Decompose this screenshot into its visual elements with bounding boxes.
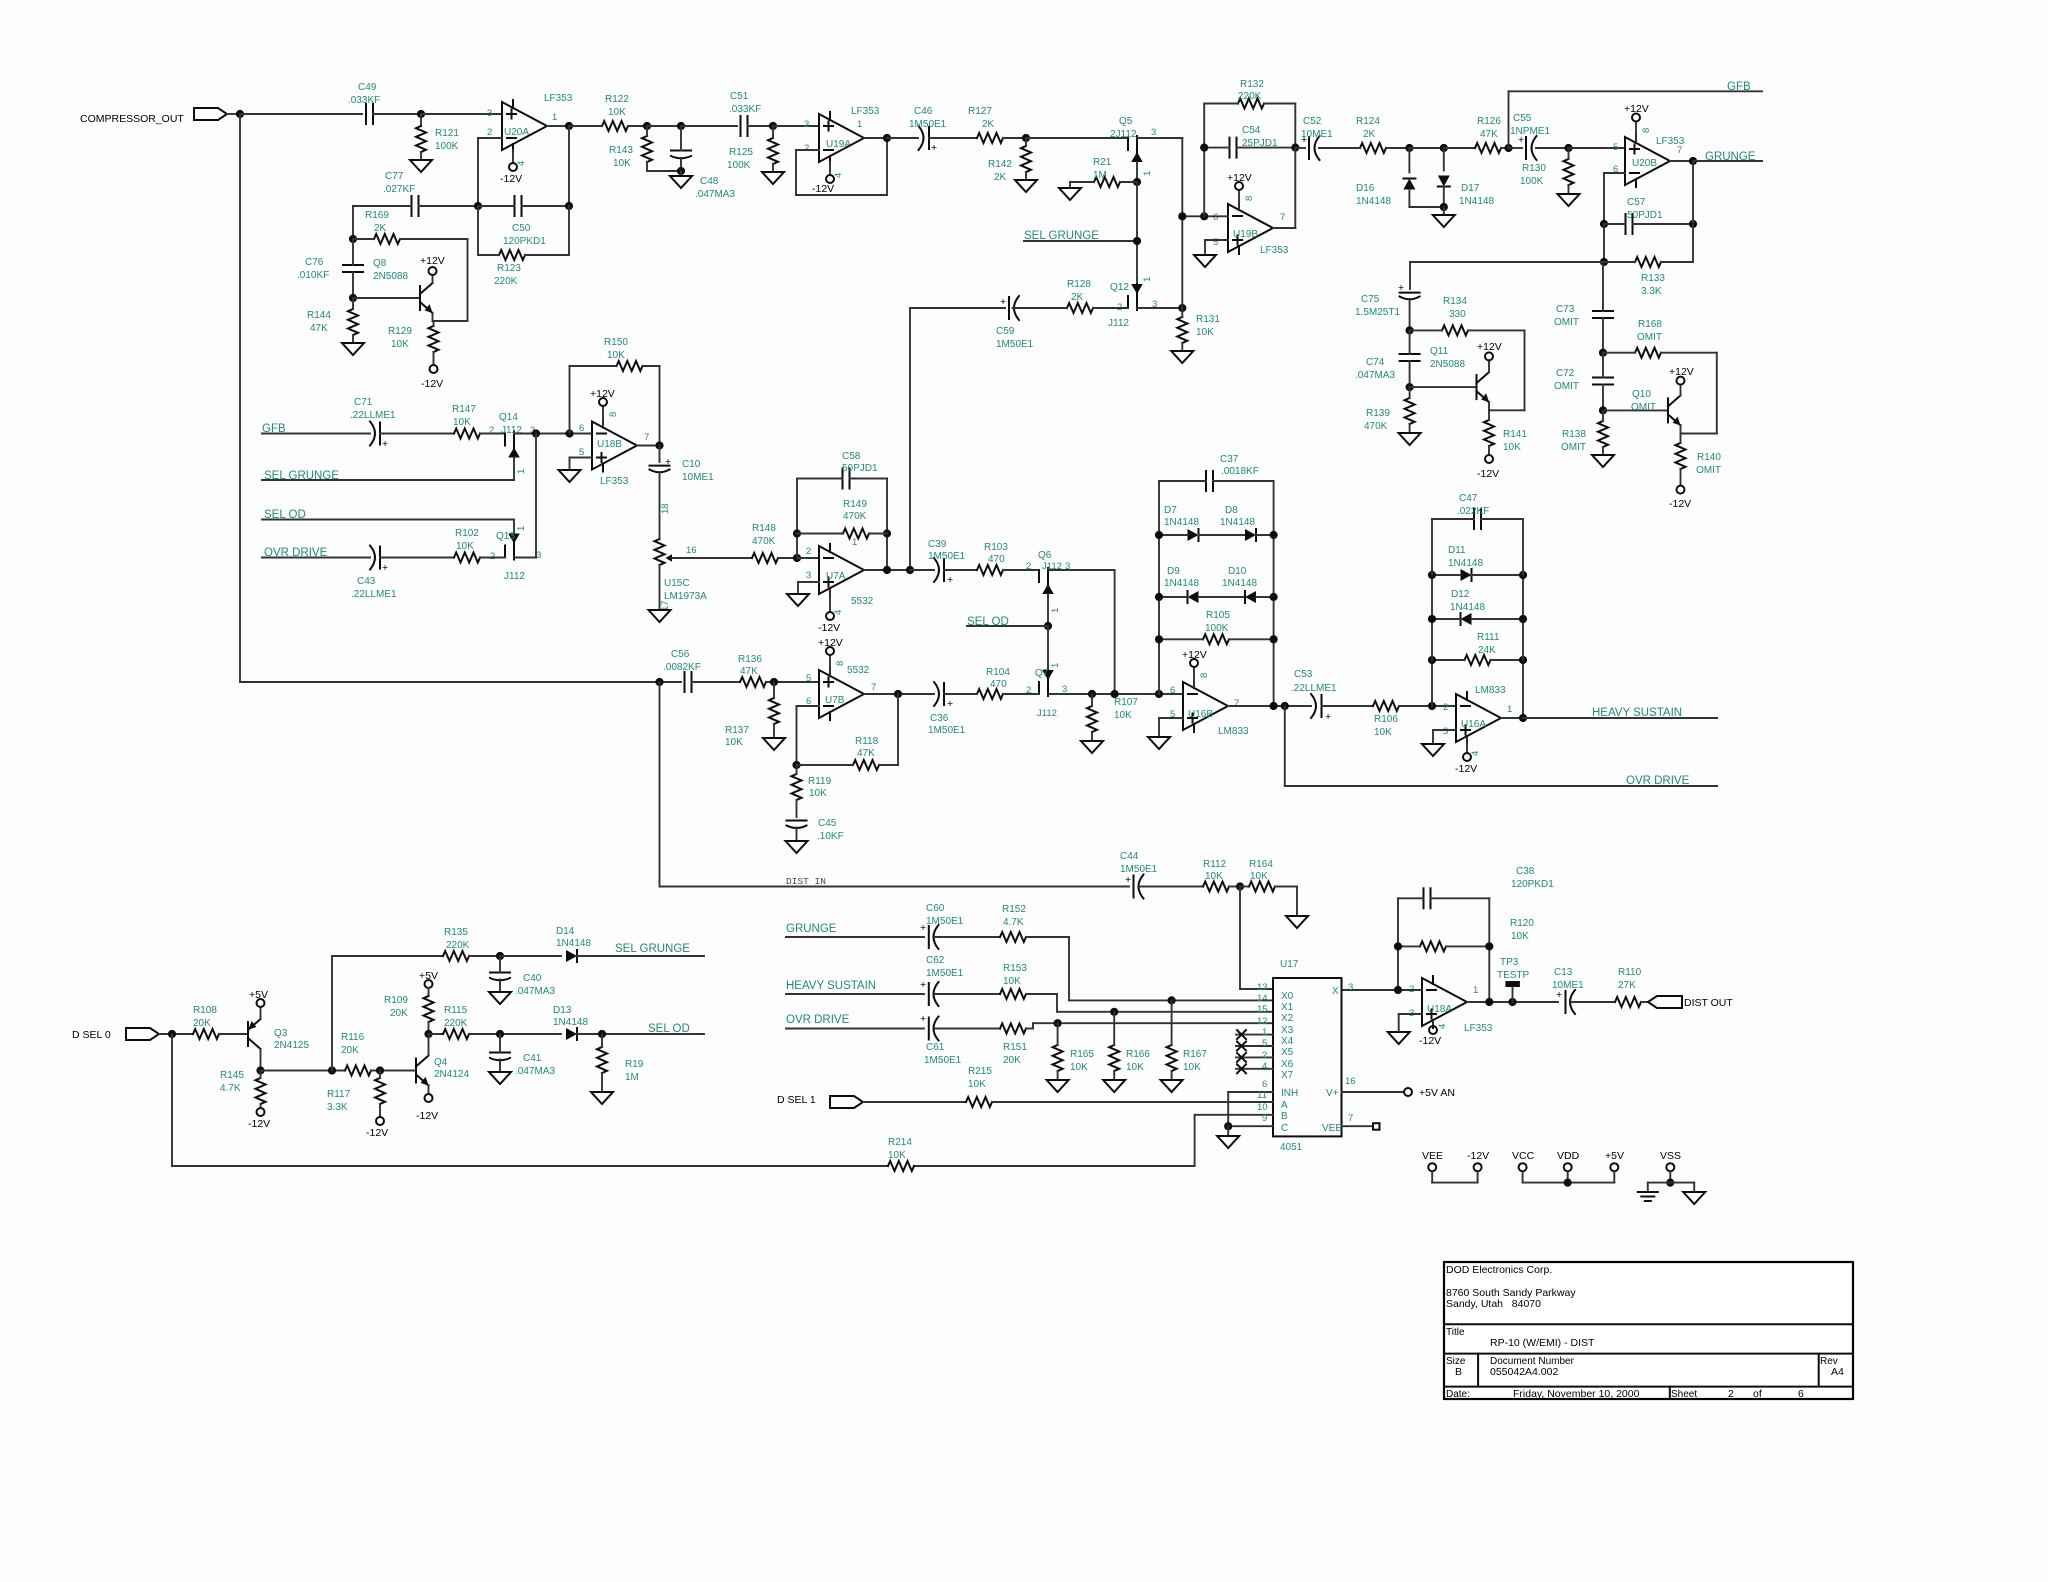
resistor R152: [1000, 904, 1069, 942]
wire: [1295, 147, 1305, 149]
capacitor C37: [1159, 454, 1274, 706]
svg-text:1: 1: [1262, 1027, 1267, 1038]
capacitor C71 polarized: [350, 397, 396, 450]
node: [1599, 406, 1607, 414]
resistor R168 OMIT: [1603, 319, 1717, 358]
svg-text:1M50E1: 1M50E1: [928, 551, 966, 562]
resistor R118: [797, 694, 899, 770]
svg-text:3: 3: [1151, 127, 1156, 138]
svg-text:C38: C38: [1516, 866, 1535, 877]
node: [1155, 593, 1163, 601]
wire Q13 drain riser: [513, 520, 515, 534]
node: [1291, 144, 1299, 152]
svg-text:4.7K: 4.7K: [1003, 917, 1024, 928]
wire: [1571, 1001, 1615, 1003]
svg-text:15: 15: [1257, 1004, 1268, 1015]
svg-text:470: 470: [988, 554, 1005, 565]
capacitor C36 polarized: [928, 682, 966, 736]
svg-text:C60: C60: [926, 903, 945, 914]
resistor R106: [1373, 701, 1456, 738]
power -12V Q4: [416, 1094, 438, 1122]
svg-text:LF353: LF353: [1464, 1023, 1493, 1034]
IC U17 4051 multiplexer: [1273, 959, 1342, 1153]
svg-text:1M50E1: 1M50E1: [909, 119, 947, 130]
resistor R153: [1000, 963, 1057, 999]
wire SEL GRUNGE row: [262, 479, 514, 481]
svg-text:R127: R127: [968, 106, 992, 117]
U17 pin X2: [1257, 1004, 1294, 1024]
ground: [1558, 194, 1580, 206]
transistor Q8: [373, 258, 433, 313]
wire: [681, 125, 737, 127]
wire: [159, 1033, 193, 1035]
svg-text:C59: C59: [996, 326, 1015, 337]
svg-text:D12: D12: [1451, 589, 1470, 600]
node: [1600, 258, 1608, 266]
svg-text:10K: 10K: [1205, 871, 1223, 882]
svg-text:-12V: -12V: [812, 183, 834, 195]
diode D16 1N4148: [1356, 148, 1415, 207]
svg-text:2K: 2K: [1071, 292, 1084, 303]
wire: [886, 138, 888, 195]
power +12V U20B pin8: [1624, 103, 1652, 142]
svg-text:1: 1: [1507, 704, 1512, 715]
resistor R144: [307, 298, 358, 343]
wire U19B pin6: [1182, 215, 1228, 217]
wire: [1522, 575, 1524, 660]
connector DIST OUT: [1648, 996, 1682, 1008]
svg-text:1N4148: 1N4148: [1164, 517, 1199, 528]
node: [1428, 615, 1436, 623]
node: [894, 690, 902, 698]
wire: [261, 1070, 346, 1072]
wire DIST IN riser: [659, 682, 661, 887]
svg-text:+12V: +12V: [818, 637, 843, 649]
svg-text:1: 1: [857, 119, 862, 130]
svg-text:R147: R147: [452, 404, 476, 415]
transistor Q6 JFET: [1026, 550, 1070, 613]
svg-text:D13: D13: [553, 1005, 572, 1016]
wire Q13 source: [514, 557, 536, 559]
svg-text:6: 6: [1798, 1388, 1804, 1400]
svg-text:C: C: [1281, 1123, 1288, 1134]
wire: [1294, 148, 1296, 228]
op-amp U7A: [806, 537, 874, 607]
svg-text:C41: C41: [523, 1053, 542, 1064]
svg-text:C47: C47: [1459, 493, 1478, 504]
resistor R164: [1240, 859, 1297, 892]
node: [1168, 996, 1176, 1004]
wire U7B input row: [240, 681, 681, 683]
power -12V R141: [1477, 455, 1499, 480]
power -12V R140: [1669, 486, 1691, 510]
testpoint TP3 TESTP: [1497, 957, 1530, 1002]
svg-text:16: 16: [1345, 1076, 1356, 1087]
capacitor C74: [1355, 330, 1420, 387]
capacitor C46 polarized: [909, 106, 947, 154]
svg-text:R128: R128: [1067, 279, 1091, 290]
power -12V R145: [248, 1108, 270, 1130]
svg-text:.10KF: .10KF: [817, 831, 844, 842]
svg-text:DOD Electronics Corp.: DOD Electronics Corp.: [1446, 1264, 1552, 1276]
node: [496, 1030, 504, 1038]
ground: [1103, 1080, 1125, 1092]
node: [1133, 178, 1141, 186]
svg-text:R136: R136: [738, 654, 762, 665]
svg-text:4.7K: 4.7K: [220, 1083, 241, 1094]
resistor R107: [1087, 694, 1138, 741]
svg-text:470K: 470K: [1364, 421, 1388, 432]
node: [883, 529, 891, 537]
svg-text:330: 330: [1449, 309, 1466, 320]
svg-text:10K: 10K: [391, 339, 409, 350]
wire: [478, 205, 515, 207]
U17 pin X4: [1236, 1027, 1294, 1047]
node: [769, 122, 777, 130]
wire U20A pin2 stub: [478, 137, 502, 139]
U17 pin X out: [1332, 982, 1353, 997]
svg-text:C49: C49: [358, 82, 377, 93]
resistor R103: [977, 542, 1039, 575]
op-amp U7B: [806, 665, 876, 720]
svg-text:.047MA3: .047MA3: [515, 1066, 555, 1077]
svg-text:R149: R149: [843, 499, 867, 510]
svg-text:C52: C52: [1303, 116, 1322, 127]
svg-text:2: 2: [1026, 561, 1031, 572]
svg-text:R110: R110: [1618, 967, 1642, 978]
svg-text:R143: R143: [609, 145, 633, 156]
svg-text:R119: R119: [808, 776, 832, 787]
svg-text:C72: C72: [1556, 368, 1575, 379]
svg-text:100K: 100K: [1520, 176, 1544, 187]
svg-text:1M50E1: 1M50E1: [926, 916, 964, 927]
wire U7B pin6 stub: [797, 705, 820, 707]
svg-text:X7: X7: [1281, 1070, 1294, 1081]
node: [1689, 220, 1697, 228]
wire OVR DRIVE return: [1285, 785, 1717, 787]
svg-text:+: +: [1325, 711, 1331, 723]
svg-text:9: 9: [1262, 1113, 1267, 1124]
svg-text:R115: R115: [444, 1005, 468, 1016]
svg-text:C36: C36: [930, 713, 949, 724]
power -12V U16A pin4: [1455, 738, 1481, 775]
svg-text:+5V AN: +5V AN: [1419, 1087, 1455, 1099]
svg-text:Q12: Q12: [1110, 282, 1129, 293]
node: [1022, 134, 1030, 142]
svg-text:5: 5: [1262, 1038, 1267, 1049]
svg-text:27K: 27K: [1618, 980, 1636, 991]
capacitor C73 OMIT: [1554, 262, 1613, 353]
svg-text:J112: J112: [1037, 708, 1057, 719]
svg-text:4: 4: [833, 610, 844, 615]
wire Q10 emitter: [1680, 425, 1682, 434]
node: [1405, 144, 1413, 152]
svg-text:U7A: U7A: [826, 571, 846, 582]
svg-text:5: 5: [806, 673, 811, 684]
wire GFB row: [262, 433, 370, 435]
svg-text:R126: R126: [1477, 116, 1501, 127]
wire bottom rail: [172, 1165, 888, 1167]
svg-text:6: 6: [579, 423, 584, 434]
wire: [863, 1101, 966, 1103]
svg-text:+: +: [1000, 296, 1006, 308]
svg-text:12: 12: [1257, 1016, 1268, 1027]
op-amp U18A: [1409, 976, 1493, 1034]
node: [1155, 690, 1163, 698]
U17 pin V+: [1326, 1076, 1404, 1099]
resistor R125: [727, 126, 778, 172]
svg-text:10ME1: 10ME1: [1552, 980, 1584, 991]
svg-text:470: 470: [990, 679, 1007, 690]
transistor Q3 2N4125 PNP: [248, 1019, 309, 1051]
svg-text:R120: R120: [1510, 918, 1534, 929]
ground: [1171, 351, 1193, 363]
capacitor C54: [1204, 125, 1295, 158]
svg-text:.027KF: .027KF: [383, 184, 415, 195]
svg-text:47K: 47K: [857, 748, 875, 759]
wire U16A pin3 gnd: [1422, 730, 1456, 756]
resistor R214: [888, 1137, 914, 1171]
svg-text:10K: 10K: [607, 350, 625, 361]
resistor R140 OMIT: [1676, 434, 1722, 486]
wire Q6 source: [1047, 594, 1049, 626]
ground: [1217, 1126, 1239, 1148]
svg-text:X6: X6: [1281, 1059, 1294, 1070]
resistor R132: [1204, 79, 1295, 216]
wire U20A out: [547, 125, 569, 127]
svg-text:R104: R104: [986, 667, 1010, 678]
wire: [1047, 626, 1049, 670]
capacitor C48: [671, 126, 735, 200]
wire: [1140, 886, 1204, 888]
svg-text:7: 7: [871, 682, 876, 693]
node: [1519, 714, 1527, 722]
svg-text:C61: C61: [926, 1042, 945, 1053]
transistor Q4 2N4124: [416, 1056, 469, 1086]
svg-text:D SEL 0: D SEL 0: [72, 1029, 111, 1041]
resistor R19: [597, 1034, 644, 1092]
svg-text:A4: A4: [1831, 1366, 1844, 1378]
svg-text:1N4148: 1N4148: [1222, 578, 1257, 589]
resistor R143: [609, 126, 681, 171]
svg-text:R124: R124: [1356, 116, 1380, 127]
svg-text:5532: 5532: [851, 596, 874, 607]
capacitor C49: [348, 82, 380, 124]
svg-text:U7B: U7B: [825, 695, 845, 706]
node: [376, 1066, 384, 1074]
wire: [1431, 575, 1433, 660]
node: [1270, 531, 1278, 539]
diode D13 1N4148: [553, 1005, 704, 1040]
svg-text:4051: 4051: [1280, 1142, 1303, 1153]
wire: [227, 113, 240, 115]
diode D10 1N4148: [1222, 566, 1274, 603]
capacitor C75 polarized vertical: [1355, 262, 1420, 327]
svg-text:C56: C56: [671, 649, 690, 660]
svg-text:3.3K: 3.3K: [1641, 286, 1662, 297]
capacitor C39 polarized: [928, 539, 966, 586]
resistor R129: [388, 321, 439, 365]
node: [532, 429, 540, 437]
svg-text:Q10: Q10: [1632, 389, 1651, 400]
wire B drop to R214: [1194, 1115, 1196, 1166]
capacitor C62 polarized: [920, 955, 964, 1006]
resistor R169: [353, 210, 468, 244]
svg-text:220K: 220K: [446, 940, 470, 951]
svg-text:-12V: -12V: [1419, 1035, 1441, 1047]
svg-text:10ME1: 10ME1: [1301, 129, 1333, 140]
svg-text:470K: 470K: [752, 536, 776, 547]
wire long vertical to U7B stage: [239, 114, 241, 682]
ground: [489, 1072, 511, 1084]
wire GRUNGE row: [786, 936, 924, 938]
svg-text:R151: R151: [1003, 1042, 1027, 1053]
wire Q14 source: [513, 458, 515, 481]
svg-text:LM1973A: LM1973A: [664, 591, 707, 602]
wire: [935, 1028, 1001, 1030]
svg-text:Q5: Q5: [1119, 116, 1133, 127]
wire: [887, 137, 918, 139]
svg-text:R117: R117: [327, 1089, 351, 1100]
svg-text:+12V: +12V: [1182, 649, 1207, 661]
power +12V U7B pin8: [818, 637, 846, 675]
wire: [692, 681, 741, 683]
svg-text:C13: C13: [1554, 967, 1573, 978]
ground: [786, 841, 808, 853]
svg-text:C37: C37: [1220, 454, 1239, 465]
ground: [1433, 207, 1455, 227]
svg-text:LM833: LM833: [1475, 685, 1506, 696]
svg-text:D10: D10: [1228, 566, 1247, 577]
node: [793, 554, 801, 562]
svg-text:+12V: +12V: [1624, 103, 1649, 115]
wire: [935, 993, 1001, 995]
resistor R124: [1319, 116, 1409, 153]
node: [1200, 144, 1208, 152]
resistor R130: [1520, 148, 1574, 194]
svg-text:220K: 220K: [1238, 91, 1262, 102]
node: [424, 1030, 432, 1038]
svg-text:D SEL 1: D SEL 1: [777, 1094, 816, 1106]
svg-text:10K: 10K: [1183, 1062, 1201, 1073]
svg-text:B: B: [1455, 1366, 1462, 1378]
ground: [670, 171, 692, 188]
svg-text:5: 5: [1613, 142, 1618, 153]
svg-text:4: 4: [1262, 1061, 1267, 1072]
svg-text:SEL OD: SEL OD: [648, 1023, 690, 1035]
node: [1044, 622, 1052, 630]
ground: [1161, 1080, 1183, 1092]
node: [1508, 998, 1516, 1006]
svg-text:V+: V+: [1326, 1088, 1339, 1099]
svg-text:+: +: [1398, 282, 1404, 294]
wire: [1068, 937, 1070, 1000]
svg-text:R133: R133: [1641, 273, 1665, 284]
capacitor C55 polarized: [1509, 113, 1569, 160]
wire OVR DRIVE row: [786, 1028, 924, 1030]
power +5V AN: [1404, 1087, 1455, 1099]
resistor R165: [1053, 1023, 1095, 1080]
wire: [773, 125, 819, 127]
svg-text:11: 11: [1257, 1090, 1267, 1101]
wire U16A out: [1501, 717, 1523, 719]
node: [1485, 942, 1493, 950]
wire: [522, 205, 570, 207]
resistor R136: [738, 654, 819, 687]
transistor Q14 JFET: [489, 412, 535, 474]
node: [1519, 615, 1527, 623]
svg-text:10K: 10K: [809, 788, 827, 799]
svg-text:+5V: +5V: [419, 970, 438, 982]
svg-text:R215: R215: [968, 1066, 992, 1077]
diode D12 1N4148: [1432, 589, 1523, 625]
wire U18B out: [637, 445, 660, 447]
wire U19B out: [1273, 227, 1295, 229]
svg-text:R122: R122: [605, 94, 629, 105]
node: [1155, 531, 1163, 539]
wire: [353, 205, 412, 207]
wire U16B pin5 gnd: [1148, 718, 1183, 749]
resistor R150: [570, 337, 660, 446]
capacitor C50: [503, 196, 546, 247]
svg-text:10K: 10K: [456, 541, 474, 552]
node: [1111, 690, 1119, 698]
svg-text:C50: C50: [512, 223, 531, 234]
svg-text:6: 6: [1213, 212, 1218, 223]
power +12V U16B pin8: [1182, 649, 1210, 687]
wire: [1409, 206, 1443, 208]
power -12V R129: [421, 365, 443, 390]
capacitor C53 polarized: [1291, 669, 1337, 723]
svg-text:7: 7: [1348, 1113, 1353, 1124]
svg-text:10K: 10K: [1250, 871, 1268, 882]
node: [1428, 656, 1436, 664]
wire Q6 drain: [1048, 569, 1115, 571]
wire: [373, 113, 421, 115]
svg-text:+12V: +12V: [420, 255, 445, 267]
node: [1133, 237, 1141, 245]
svg-text:7: 7: [1234, 698, 1239, 709]
node: [1428, 702, 1436, 710]
svg-text:VSS: VSS: [1660, 1150, 1681, 1162]
svg-text:.047MA3: .047MA3: [695, 189, 735, 200]
transistor Q5 JFET: [1110, 116, 1156, 176]
wire DIST IN: [660, 886, 1130, 888]
svg-text:GRUNGE: GRUNGE: [1705, 151, 1756, 163]
ground: [649, 565, 671, 622]
svg-text:+: +: [931, 142, 937, 154]
resistor R105: [1159, 610, 1274, 644]
svg-text:1: 1: [516, 526, 527, 531]
wire bottom rail right: [914, 1165, 1195, 1167]
svg-text:1N4148: 1N4148: [1356, 196, 1391, 207]
svg-text:R168: R168: [1638, 319, 1662, 330]
svg-text:+: +: [947, 574, 953, 586]
svg-text:C45: C45: [818, 818, 837, 829]
wire C77 left leg: [352, 206, 354, 239]
svg-text:4: 4: [516, 161, 527, 166]
svg-text:C76: C76: [305, 257, 324, 268]
resistor R21: [1070, 157, 1137, 187]
svg-text:Friday, November 10, 2000: Friday, November 10, 2000: [1513, 1388, 1640, 1400]
svg-text:Q8: Q8: [373, 258, 387, 269]
svg-text:.047MA3: .047MA3: [1355, 370, 1395, 381]
svg-text:100K: 100K: [435, 141, 459, 152]
wire: [1032, 1023, 1034, 1028]
svg-text:1N4148: 1N4148: [1448, 558, 1483, 569]
svg-text:R103: R103: [984, 542, 1008, 553]
node: [328, 1066, 336, 1074]
